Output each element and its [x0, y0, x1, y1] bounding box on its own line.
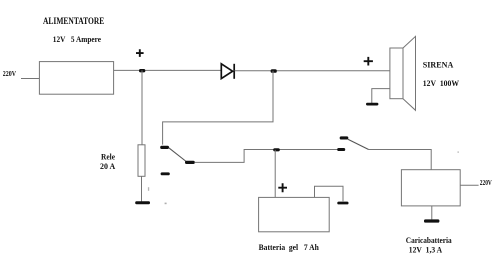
svg-text:12V 5 Ampere: 12V 5 Ampere [53, 34, 101, 44]
switch S1 blade (open) [348, 139, 369, 149]
svg-text:Caricabatteria: Caricabatteria [406, 236, 452, 245]
wire: charger to ground [431, 206, 433, 220]
label: + at battery [278, 183, 287, 192]
switch: relay contact blade (closed) [169, 148, 186, 162]
ground: siren ground [366, 103, 378, 106]
wire: charger AC input lead [460, 184, 478, 186]
svg-text:12V 100W: 12V 100W [423, 79, 459, 88]
svg-text:SIRENA: SIRENA [423, 59, 454, 69]
wire: diode cathode to siren [235, 70, 391, 72]
battery BT1 box [259, 197, 330, 231]
wire: diode cathode junction down and across to relay contact [163, 71, 273, 145]
battery charger U2 box [401, 170, 460, 206]
switch S1 blade tip contact [340, 136, 349, 139]
siren LS1 speaker symbol [390, 36, 416, 110]
wire: power supply output to diode anode [114, 69, 222, 71]
wire: siren return lead [372, 89, 390, 103]
svg-text:20 A: 20 A [100, 162, 115, 171]
wire: 220V lead into power supply [21, 78, 39, 80]
ground: relay coil ground [135, 201, 150, 204]
node: junction at power supply output [139, 69, 145, 72]
svg-text:Batteria gel 7 Ah: Batteria gel 7 Ah [259, 243, 320, 252]
svg-text:220V: 220V [480, 179, 492, 187]
wire: switch to battery charger [369, 150, 432, 170]
node: battery positive junction [273, 148, 280, 151]
wire: relay coil to ground [141, 176, 143, 201]
svg-text:12V 1,3 A: 12V 1,3 A [409, 245, 443, 254]
node: stray tick near relay [148, 187, 149, 191]
node: junction at diode cathode [271, 69, 277, 73]
wire: battery positive drop [274, 150, 276, 198]
label: + at power supply output [136, 49, 144, 57]
ground: battery negative ground [337, 202, 348, 205]
wire: +12V rail down to relay coil [141, 70, 143, 145]
svg-text:220V: 220V [3, 70, 16, 78]
label: + at siren input [364, 57, 373, 66]
node: stray speck below relay contact [165, 203, 167, 205]
wire: relay contact to battery junction and switch [195, 150, 338, 163]
svg-text:ALIMENTATORE: ALIMENTATORE [43, 16, 104, 26]
switch S1 left contact [337, 148, 345, 151]
node: relay closed contact [185, 161, 195, 164]
node: stray speck near charger [457, 151, 459, 152]
svg-text:Rele: Rele [101, 153, 115, 162]
power supply U1 (ALIMENTATORE) box [39, 62, 113, 95]
relay coil K1 [138, 145, 145, 177]
diode D1 [221, 64, 234, 79]
node: relay common contact [160, 146, 169, 149]
wire: battery negative to ground [315, 186, 344, 201]
node: relay open contact (unconnected) [161, 172, 170, 175]
ground: charger ground [424, 219, 439, 222]
